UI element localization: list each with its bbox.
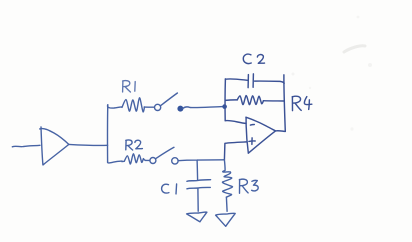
wire feedback left vertical <box>224 79 226 121</box>
wire feedback top left <box>225 79 247 80</box>
wire R1 lead left <box>108 105 122 108</box>
switch S1 throw contact <box>178 106 183 111</box>
label R4 <box>292 96 312 110</box>
wire feedback top right <box>255 81 285 83</box>
label R2 <box>126 140 143 150</box>
wire to op-amp inverting input <box>225 121 246 124</box>
input wire <box>12 145 40 147</box>
wire R4 lead left <box>225 99 237 102</box>
label C2 <box>243 54 264 63</box>
switch S2 arm <box>156 147 174 158</box>
op-amp <box>246 117 276 153</box>
wire R3 drop <box>223 160 231 172</box>
op-amp minus sign <box>250 124 254 127</box>
wire switch S1 to node A <box>183 107 223 109</box>
node A junction dot <box>222 104 227 109</box>
switch S2 throw contact <box>172 158 178 164</box>
label R3 <box>239 179 258 193</box>
capacitor C1 <box>187 180 211 189</box>
ground (C1) <box>187 212 207 222</box>
label R1 <box>123 81 136 92</box>
wire R1 to switch <box>144 106 154 108</box>
resistor R2 <box>122 154 146 164</box>
wire buffer output <box>69 143 108 146</box>
label C1 <box>162 184 177 194</box>
wire C1 drop <box>196 160 199 180</box>
node B vertical to op-amp non-inverting input <box>224 142 246 160</box>
op-amp plus sign <box>249 138 255 145</box>
wire switch S2 to node B <box>178 159 224 162</box>
switch S2 pole contact <box>150 158 156 164</box>
wire feedback right vertical <box>284 75 285 131</box>
switch S1 pole contact <box>155 104 161 110</box>
resistor R4 <box>237 96 263 105</box>
wire R3 to ground <box>225 197 228 211</box>
wire R4 lead right <box>263 100 284 102</box>
wire R2 to switch <box>146 159 150 161</box>
buffer amplifier <box>40 127 69 165</box>
smudge top-right <box>292 16 373 131</box>
resistor R1 <box>122 98 144 112</box>
wire R2 lead left <box>108 161 122 163</box>
ground (R3) <box>216 213 236 226</box>
switch S1 arm <box>161 93 178 105</box>
wire junction vertical <box>107 105 109 162</box>
capacitor C2 <box>248 74 253 88</box>
resistor R3 <box>222 172 232 197</box>
wire op-amp output <box>276 130 286 133</box>
wire C1 to ground <box>197 189 199 212</box>
